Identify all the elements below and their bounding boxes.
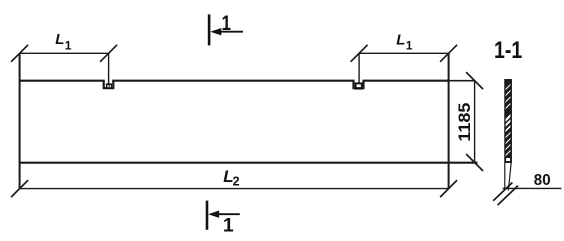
svg-text:80: 80 <box>534 172 551 189</box>
svg-text:2: 2 <box>233 174 240 188</box>
svg-text:1: 1 <box>65 39 72 53</box>
svg-text:L: L <box>396 31 405 48</box>
svg-text:1: 1 <box>223 214 234 236</box>
svg-text:1185: 1185 <box>456 103 474 142</box>
svg-text:1-1: 1-1 <box>494 37 522 64</box>
svg-text:1: 1 <box>222 11 232 35</box>
svg-text:1: 1 <box>406 39 413 53</box>
svg-text:L: L <box>55 31 64 48</box>
